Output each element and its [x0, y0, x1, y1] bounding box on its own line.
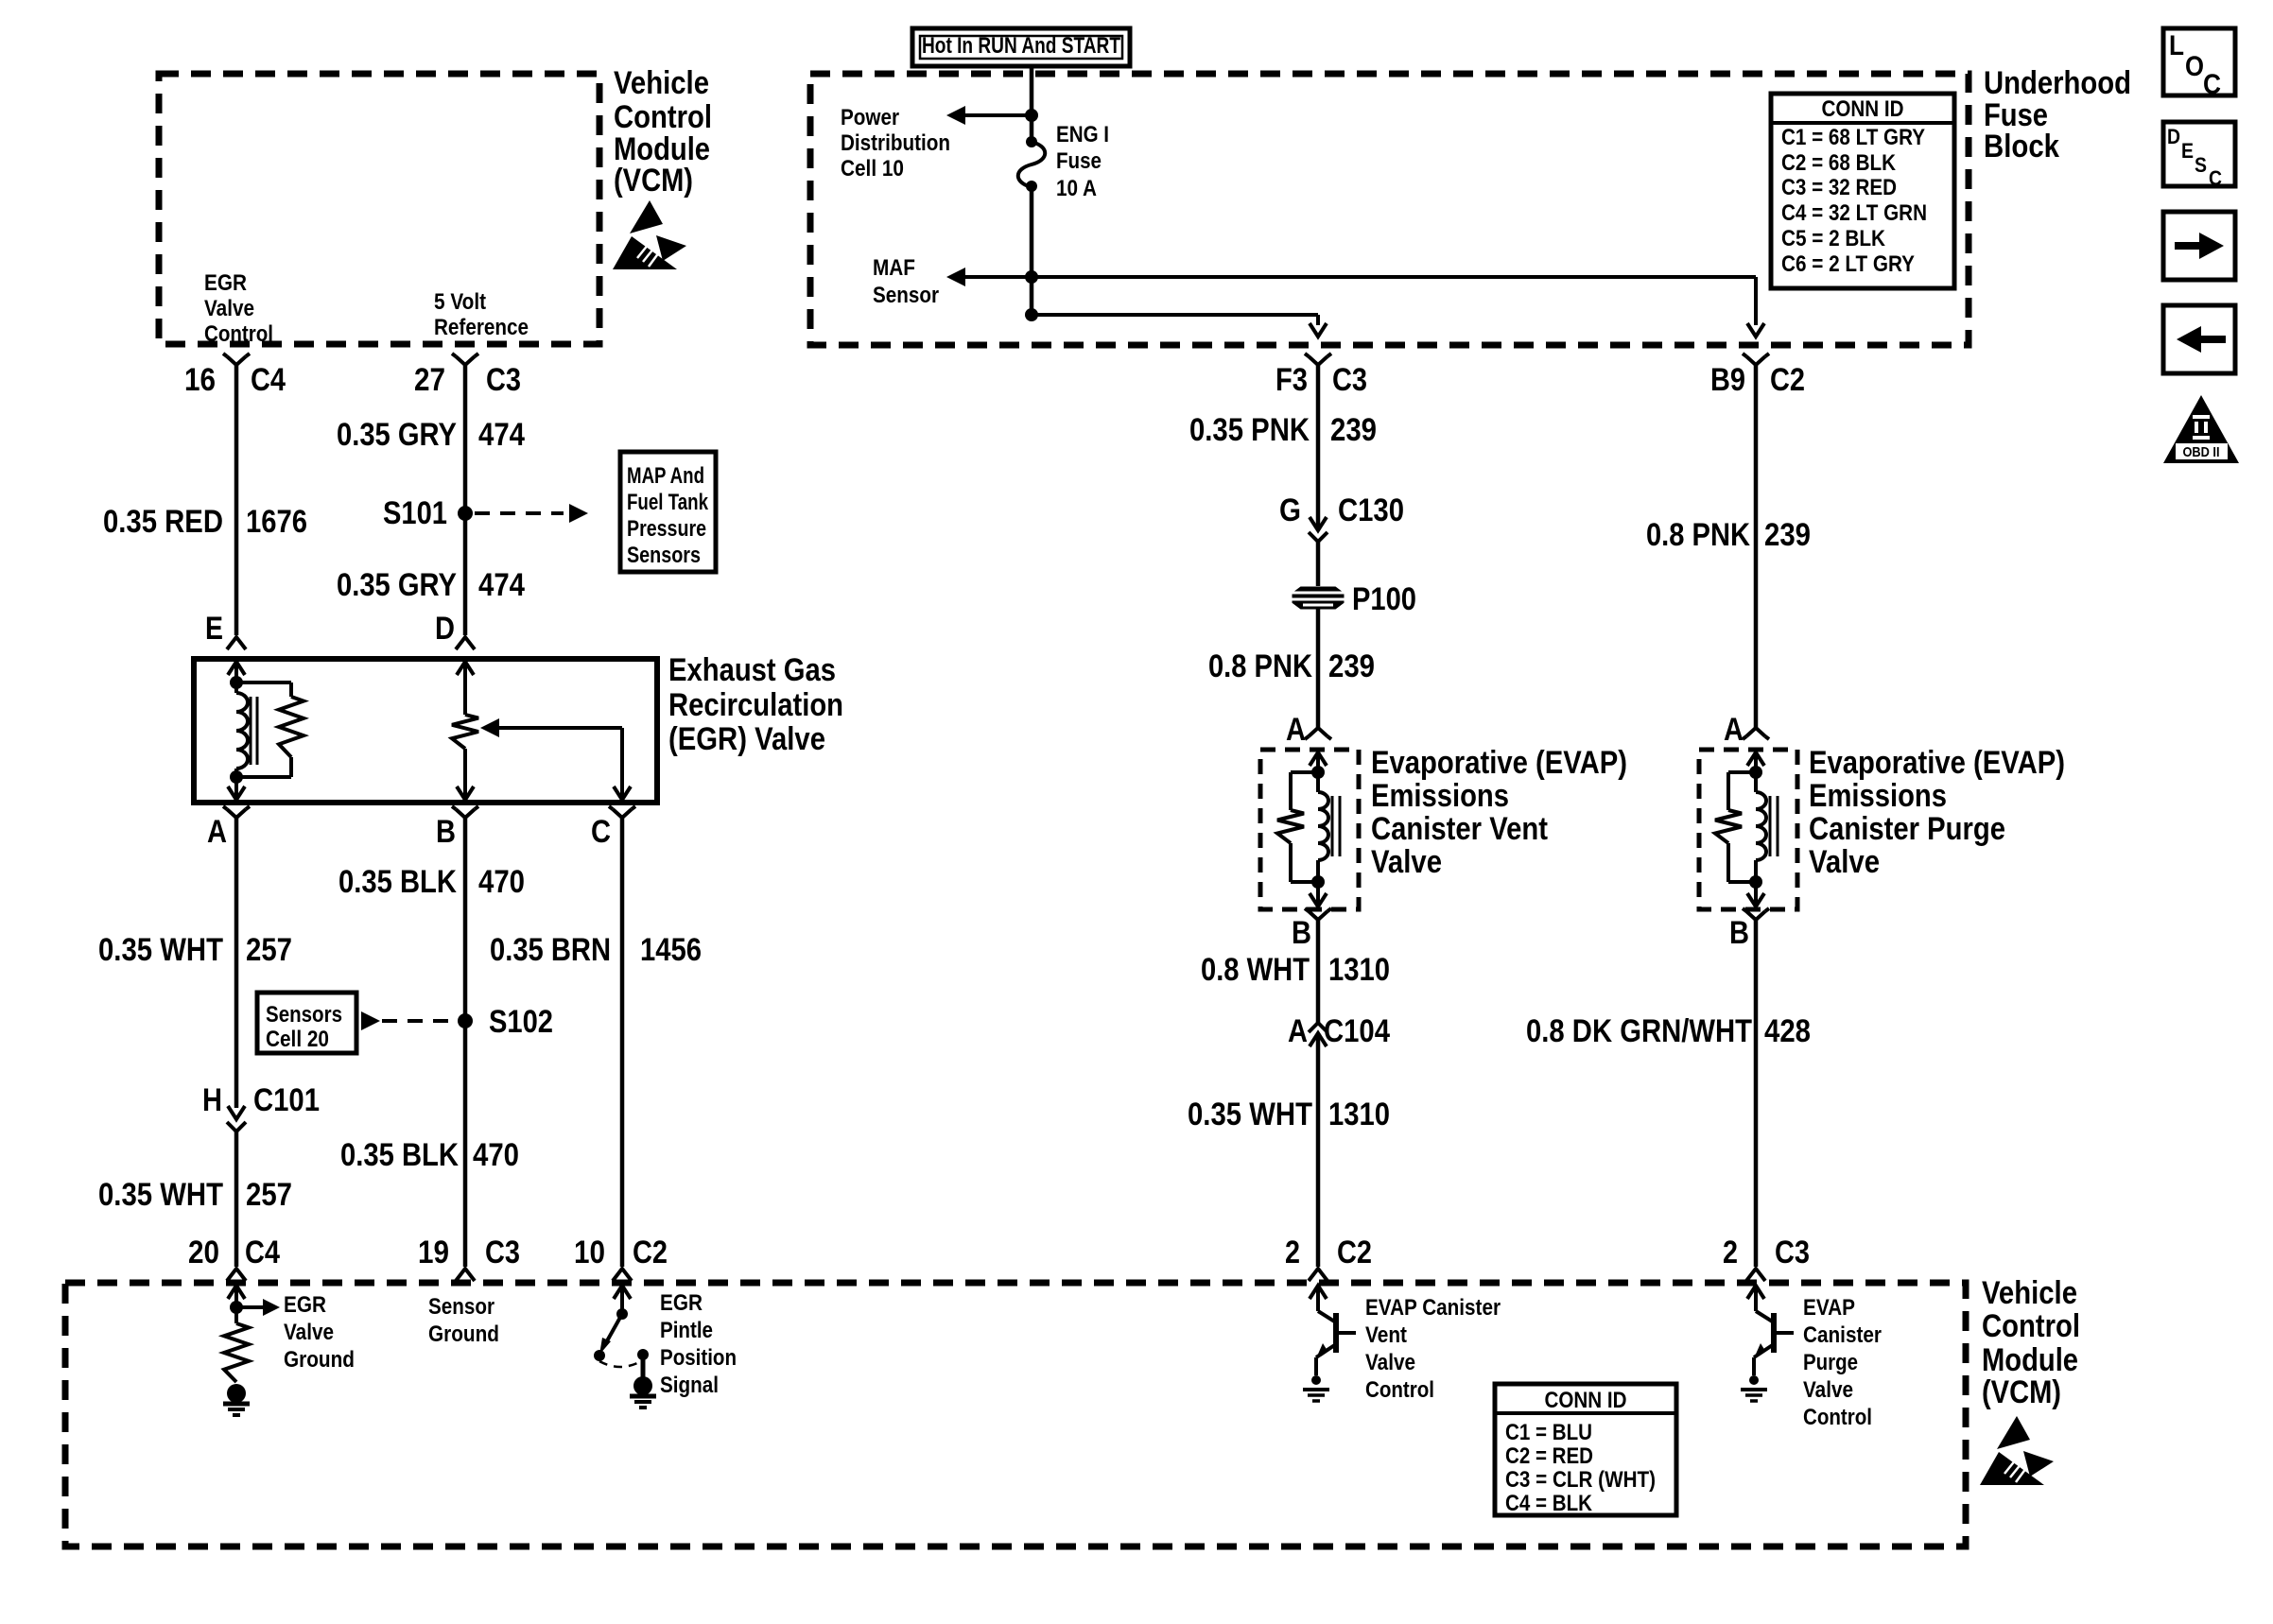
svg-text:1310: 1310 [1328, 1097, 1390, 1132]
svg-text:Pintle: Pintle [660, 1318, 713, 1343]
svg-text:CONN ID: CONN ID [1545, 1388, 1627, 1413]
pintle wiper pivot dot [616, 1308, 628, 1320]
svg-text:Sensor: Sensor [428, 1294, 495, 1320]
connector pin 27 C3 [456, 356, 475, 365]
svg-text:S: S [2195, 153, 2207, 177]
wire 0.35 BRN 1456 [620, 818, 625, 1267]
svg-text:Evaporative (EVAP): Evaporative (EVAP) [1371, 745, 1627, 781]
OBD II symbol [2163, 395, 2239, 463]
svg-text:20: 20 [188, 1235, 219, 1270]
svg-text:0.35 RED: 0.35 RED [103, 504, 223, 540]
CONN ID box underhood [1771, 94, 1954, 288]
svg-text:Valve: Valve [1809, 844, 1880, 880]
EGR valve ground resistor [224, 1323, 249, 1382]
svg-text:C4: C4 [245, 1235, 280, 1270]
svg-text:O: O [2185, 51, 2204, 82]
svg-text:Sensor: Sensor [873, 283, 939, 308]
svg-text:EGR: EGR [204, 270, 247, 296]
junction to power distribution [1025, 109, 1038, 122]
pintle dashed arc [599, 1361, 641, 1367]
LOC icon box [2163, 28, 2235, 95]
svg-text:0.8 PNK: 0.8 PNK [1208, 648, 1312, 684]
EVAP canister purge valve dashed box [1699, 750, 1797, 909]
pintle wiper left contact dot [594, 1350, 605, 1361]
svg-text:D: D [2167, 125, 2180, 148]
pintle wire to ground [641, 1355, 646, 1378]
svg-text:Pressure: Pressure [627, 516, 706, 542]
svg-text:428: 428 [1764, 1013, 1811, 1049]
svg-text:C3: C3 [1775, 1235, 1810, 1270]
pin 19 C3 [456, 1269, 475, 1281]
svg-text:Exhaust Gas: Exhaust Gas [668, 652, 836, 688]
inline connector H C101 [228, 1106, 245, 1119]
svg-text:2: 2 [1723, 1235, 1738, 1270]
svg-text:Fuse: Fuse [1056, 148, 1102, 174]
svg-text:470: 470 [478, 864, 525, 900]
svg-text:E: E [2181, 139, 2194, 163]
inline connector G C130 [1310, 517, 1327, 530]
svg-text:S101: S101 [383, 495, 447, 531]
svg-text:G: G [1279, 492, 1301, 528]
svg-text:C6 = 2 LT GRY: C6 = 2 LT GRY [1781, 251, 1915, 277]
svg-text:C3: C3 [485, 1235, 520, 1270]
svg-text:Cell 20: Cell 20 [266, 1027, 329, 1052]
svg-text:Signal: Signal [660, 1373, 719, 1398]
svg-text:1310: 1310 [1328, 952, 1390, 988]
svg-text:(VCM): (VCM) [1982, 1374, 2061, 1410]
svg-text:A: A [1724, 712, 1744, 748]
junction to F3 branch [1025, 308, 1038, 321]
wire 0.8 PNK 239 right [1754, 365, 1759, 728]
svg-text:Valve: Valve [1371, 844, 1442, 880]
svg-text:C5 = 2 BLK: C5 = 2 BLK [1781, 226, 1886, 251]
EGR solenoid parallel resistor [236, 681, 291, 684]
pin B9 C2 [1746, 356, 1765, 365]
svg-text:Vehicle: Vehicle [614, 65, 709, 101]
svg-text:Position: Position [660, 1345, 737, 1371]
pintle right contact dot [637, 1349, 649, 1360]
svg-text:Vehicle: Vehicle [1982, 1275, 2077, 1311]
connector pin 16 C4 [227, 356, 246, 365]
svg-text:Canister: Canister [1803, 1322, 1882, 1348]
svg-text:0.35 BRN: 0.35 BRN [490, 932, 611, 968]
svg-text:10 A: 10 A [1056, 176, 1097, 201]
pin 10 C2 [613, 1269, 632, 1281]
svg-text:C1 = 68 LT GRY: C1 = 68 LT GRY [1781, 125, 1925, 150]
svg-text:Ground: Ground [428, 1322, 499, 1347]
bottom VCM dashed box [65, 1283, 1966, 1546]
svg-text:Recirculation: Recirculation [668, 687, 843, 723]
svg-text:B9: B9 [1710, 362, 1745, 398]
Sensors Cell 20 box [257, 993, 356, 1053]
wire 0.8 DK GRN/WHT 428 [1754, 920, 1759, 1267]
svg-text:C2 = 68 BLK: C2 = 68 BLK [1781, 150, 1897, 176]
svg-text:Valve: Valve [284, 1320, 334, 1345]
wire 0.8 WHT 1310 [1316, 920, 1321, 1023]
next arrow icon box [2163, 212, 2235, 280]
svg-text:0.35 BLK: 0.35 BLK [340, 1137, 459, 1173]
svg-text:OBD II: OBD II [2183, 444, 2220, 460]
top VCM dashed box (Vehicle Control Module) [159, 74, 599, 344]
svg-text:Sensors: Sensors [627, 543, 701, 568]
svg-text:Control: Control [1803, 1405, 1872, 1430]
MAP And Fuel Tank Pressure Sensors box [620, 452, 716, 572]
svg-text:C2: C2 [633, 1235, 668, 1270]
svg-text:B: B [1729, 915, 1749, 951]
svg-text:0.35 GRY: 0.35 GRY [337, 567, 457, 603]
EGR valve ground junction [230, 1301, 243, 1314]
svg-text:Distribution: Distribution [841, 130, 950, 156]
wire 0.8 PNK 239 middle [1316, 608, 1321, 728]
EGR solenoid core lines [250, 697, 252, 765]
pin B fork [456, 809, 475, 818]
svg-text:C: C [2209, 166, 2222, 190]
svg-text:Vent: Vent [1365, 1322, 1407, 1348]
svg-text:B: B [436, 814, 456, 850]
svg-text:16: 16 [184, 362, 216, 398]
svg-text:(VCM): (VCM) [614, 163, 693, 199]
EVAP canister vent valve dashed box [1260, 750, 1359, 909]
wire 0.35 WHT 257 upper [234, 818, 239, 1108]
EGR pintle pot pin D internal arrow [457, 662, 474, 675]
svg-text:EVAP Canister: EVAP Canister [1365, 1295, 1501, 1321]
svg-text:Underhood: Underhood [1984, 65, 2131, 101]
svg-text:1456: 1456 [640, 932, 702, 968]
svg-text:239: 239 [1330, 412, 1377, 448]
svg-text:Valve: Valve [204, 296, 254, 321]
EGR solenoid top junction [230, 676, 243, 689]
svg-text:A: A [207, 814, 227, 850]
svg-text:EGR: EGR [284, 1292, 326, 1318]
svg-text:5 Volt: 5 Volt [434, 289, 486, 315]
svg-text:C101: C101 [253, 1082, 320, 1118]
svg-text:C: C [591, 814, 611, 850]
svg-text:Canister Vent: Canister Vent [1371, 811, 1548, 847]
pin A fork [227, 809, 246, 818]
svg-text:0.8 DK GRN/WHT: 0.8 DK GRN/WHT [1526, 1013, 1752, 1049]
svg-text:Emissions: Emissions [1809, 778, 1947, 814]
ESD symbol bottom [1980, 1416, 2054, 1486]
ground symbol vent transistor [1311, 1375, 1321, 1385]
pin E male connector [227, 637, 246, 649]
svg-text:0.8 PNK: 0.8 PNK [1646, 517, 1750, 553]
arrow to Power Distribution [964, 113, 1032, 117]
svg-text:EVAP: EVAP [1803, 1295, 1855, 1321]
pin 2 C2 [1309, 1269, 1327, 1281]
svg-text:Purge: Purge [1803, 1350, 1858, 1375]
svg-text:C1 = BLU: C1 = BLU [1505, 1420, 1592, 1445]
svg-text:C3: C3 [486, 362, 521, 398]
wire below fuse [1030, 186, 1034, 315]
EGR valve ground internal arrow [228, 1286, 245, 1299]
svg-text:0.35 GRY: 0.35 GRY [337, 417, 457, 453]
svg-text:Control: Control [1365, 1377, 1434, 1403]
pintle wiper arm [604, 1314, 622, 1346]
CONN ID box bottom [1495, 1384, 1676, 1515]
svg-text:0.35 PNK: 0.35 PNK [1189, 412, 1310, 448]
svg-text:Canister Purge: Canister Purge [1809, 811, 2005, 847]
svg-text:19: 19 [418, 1235, 449, 1270]
svg-text:27: 27 [414, 362, 445, 398]
EVAP purge valve internals [1747, 752, 1764, 766]
pin D male connector [456, 637, 475, 649]
svg-text:B: B [1292, 915, 1311, 951]
svg-text:10: 10 [574, 1235, 605, 1270]
svg-text:0.35 WHT: 0.35 WHT [98, 932, 223, 968]
svg-text:0.35 WHT: 0.35 WHT [1188, 1097, 1312, 1132]
svg-text:2: 2 [1285, 1235, 1300, 1270]
svg-text:257: 257 [246, 932, 292, 968]
svg-text:C3 = 32 RED: C3 = 32 RED [1781, 175, 1897, 200]
svg-text:C2 = RED: C2 = RED [1505, 1443, 1593, 1469]
ESD symbol top [613, 200, 686, 270]
branch wire to B9 [1032, 275, 1756, 279]
pin F3 C3 [1309, 356, 1327, 365]
DESC icon box [2163, 122, 2235, 186]
svg-text:Control: Control [1982, 1308, 2080, 1344]
svg-text:A: A [1286, 712, 1306, 748]
svg-text:Control: Control [614, 99, 712, 135]
svg-text:D: D [435, 611, 455, 647]
wire 0.35 GRY 474 upper [463, 365, 468, 635]
svg-text:Emissions: Emissions [1371, 778, 1509, 814]
svg-text:C3: C3 [1332, 362, 1367, 398]
svg-text:CONN ID: CONN ID [1822, 96, 1904, 122]
EGR valve box [194, 659, 657, 803]
svg-text:C2: C2 [1770, 362, 1805, 398]
svg-text:C4: C4 [251, 362, 286, 398]
pin A EVAP vent [1309, 728, 1327, 736]
svg-text:E: E [205, 611, 223, 647]
EGR pintle position resistor [452, 715, 478, 749]
svg-text:257: 257 [246, 1177, 292, 1213]
splice S101 [458, 506, 473, 521]
junction to MAF / B9 branch [1025, 270, 1038, 284]
svg-text:Block: Block [1984, 129, 2059, 164]
branch wire to F3 [1032, 313, 1318, 317]
pin B EVAP vent fork [1309, 911, 1327, 920]
svg-text:Valve: Valve [1803, 1377, 1853, 1403]
EGR pintle position signal internal arrow [614, 1286, 631, 1299]
svg-text:Sensors: Sensors [266, 1002, 342, 1028]
svg-text:239: 239 [1764, 517, 1811, 553]
svg-text:MAP And: MAP And [627, 463, 704, 489]
wire from hot label [1030, 66, 1034, 142]
svg-text:S102: S102 [489, 1004, 553, 1040]
svg-text:239: 239 [1328, 648, 1375, 684]
svg-text:474: 474 [478, 567, 525, 603]
wire 0.35 RED 1676 [234, 365, 239, 635]
EGR solenoid bottom junction [230, 770, 243, 784]
EGR solenoid exit arrow to pin A [234, 769, 238, 799]
wire 0.35 BLK 470 upper [463, 818, 468, 1267]
pin C fork [613, 809, 632, 818]
svg-text:H: H [202, 1082, 222, 1118]
svg-text:474: 474 [478, 417, 525, 453]
svg-text:F3: F3 [1275, 362, 1308, 398]
svg-text:MAF: MAF [873, 255, 915, 281]
svg-text:Ground: Ground [284, 1347, 355, 1373]
svg-text:Evaporative (EVAP): Evaporative (EVAP) [1809, 745, 2065, 781]
EGR solenoid branch pin E internal arrow [228, 662, 245, 675]
EGR pintle wiper wire to pin C [620, 728, 624, 799]
inline connector A C104 [1309, 1023, 1327, 1032]
pin B EVAP purge fork [1746, 911, 1765, 920]
EGR valve ground arrow right [236, 1305, 263, 1309]
wire 0.35 PNK 239 [1316, 365, 1321, 528]
Underhood Fuse Block dashed box [810, 74, 1969, 345]
svg-text:A: A [1288, 1013, 1308, 1049]
dashed reference S101 to MAP sensors box [475, 511, 564, 515]
pin 2 C3 [1746, 1269, 1765, 1281]
svg-text:0.8 WHT: 0.8 WHT [1201, 952, 1310, 988]
svg-text:EGR: EGR [660, 1290, 703, 1316]
svg-text:C4 = 32 LT GRN: C4 = 32 LT GRN [1781, 200, 1927, 226]
EVAP canister purge valve control transistor [1747, 1286, 1764, 1299]
pin A EVAP purge [1746, 728, 1765, 736]
previous arrow icon box [2163, 305, 2235, 373]
ground symbol purge transistor [1749, 1375, 1759, 1385]
svg-text:Valve: Valve [1365, 1350, 1415, 1375]
arrow to MAF Sensor [964, 275, 1032, 279]
svg-text:L: L [2169, 30, 2184, 61]
svg-text:0.35 BLK: 0.35 BLK [338, 864, 457, 900]
svg-text:Power: Power [841, 105, 899, 130]
svg-text:Module: Module [1982, 1342, 2078, 1378]
svg-text:C: C [2203, 69, 2221, 100]
pin 20 C4 [227, 1269, 246, 1281]
EVAP canister vent valve control transistor [1310, 1286, 1327, 1299]
svg-text:0.35 WHT: 0.35 WHT [98, 1177, 223, 1213]
svg-text:1676: 1676 [246, 504, 307, 540]
ground symbol EGR valve [227, 1384, 246, 1403]
svg-text:Hot In RUN And START: Hot In RUN And START [922, 33, 1120, 59]
svg-text:Fuel Tank: Fuel Tank [627, 490, 708, 515]
EGR pintle wiper arrow [480, 718, 499, 737]
svg-text:ENG I: ENG I [1056, 122, 1109, 147]
dashed reference Sensors Cell 20 to S102 [361, 1011, 380, 1030]
Hot In RUN And START label box [912, 28, 1130, 66]
fuse ENG I 10A [1026, 136, 1037, 147]
svg-text:P100: P100 [1352, 581, 1416, 617]
svg-text:C130: C130 [1338, 492, 1404, 528]
svg-text:Control: Control [204, 321, 273, 347]
EVAP vent valve internals [1310, 752, 1327, 766]
svg-text:C104: C104 [1324, 1013, 1390, 1049]
pass-through grommet P100 [1293, 588, 1343, 608]
splice S102 [458, 1013, 473, 1028]
svg-text:Cell 10: Cell 10 [841, 156, 904, 181]
svg-text:C2: C2 [1337, 1235, 1372, 1270]
svg-text:C4 = BLK: C4 = BLK [1505, 1491, 1593, 1516]
svg-text:Reference: Reference [434, 315, 529, 340]
svg-text:470: 470 [473, 1137, 519, 1173]
svg-text:(EGR) Valve: (EGR) Valve [668, 721, 825, 757]
EGR solenoid coil [236, 693, 248, 769]
svg-text:C3 = CLR (WHT): C3 = CLR (WHT) [1505, 1467, 1656, 1493]
ground symbol pintle [633, 1376, 652, 1395]
